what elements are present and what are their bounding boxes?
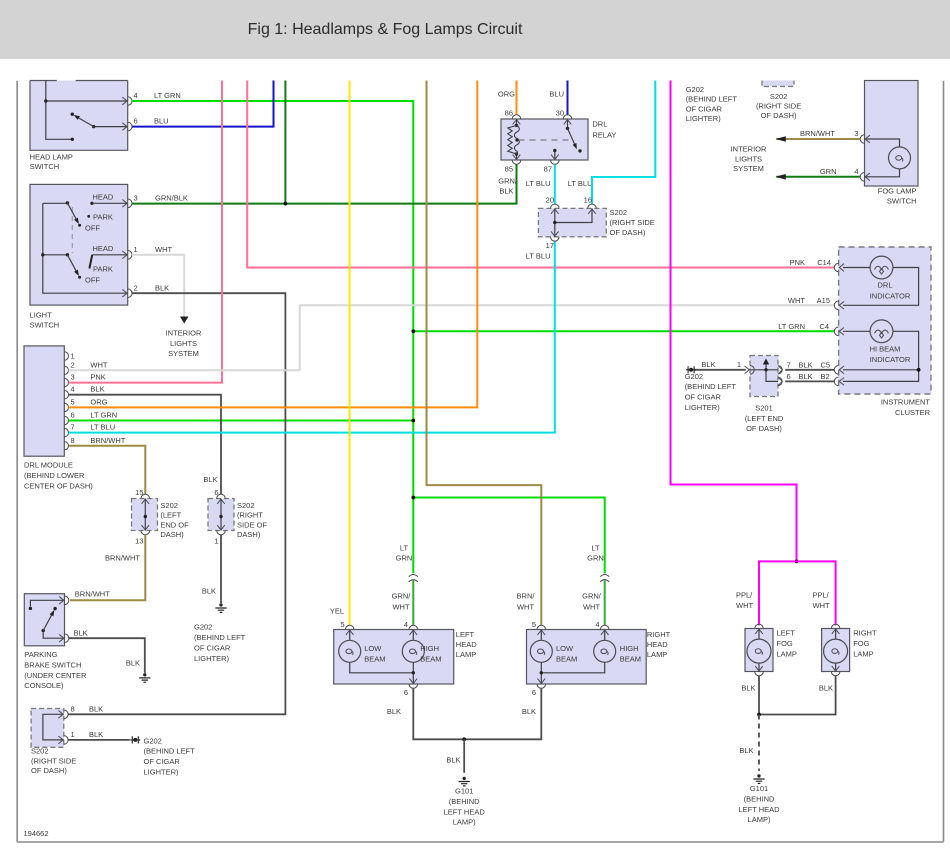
svg-text:S202: S202 [160,501,178,510]
head lamp switch box [30,81,128,151]
svg-text:PARK: PARK [93,212,113,221]
light switch mechanical link (dashed) [71,207,73,253]
wire BRN/WHT: DRL module pin 8 down to S202 pin 15 [69,446,146,495]
svg-text:OF DASH): OF DASH) [31,766,67,775]
wire BLK: DRL module pin 4 down to S202 (right side) [69,395,222,495]
svg-text:6: 6 [404,688,408,697]
svg-text:BLK: BLK [522,707,536,716]
svg-text:(BEHIND LOWER: (BEHIND LOWER [24,471,85,480]
svg-text:PPL/: PPL/ [813,591,830,600]
svg-text:BRN/: BRN/ [517,592,536,601]
DRL module pin 1 [64,352,68,360]
svg-text:(BEHIND: (BEHIND [744,794,775,803]
svg-text:B2: B2 [821,372,830,381]
svg-text:LT BLU: LT BLU [526,179,551,188]
svg-text:LOW: LOW [364,644,382,653]
right fog lamp pin bottom [831,666,840,676]
svg-text:1: 1 [737,360,741,369]
svg-text:2: 2 [71,360,75,369]
svg-text:HIGH: HIGH [420,644,439,653]
head lamp switch internal bus [44,81,128,142]
left head lamp high beam bulb [402,640,424,662]
wire BLK: G202 splice to S201 pin 1 [695,369,746,371]
inline connector on left GRN/WHT feed [409,575,418,582]
svg-text:ORG: ORG [498,89,515,98]
svg-text:7: 7 [787,360,791,369]
svg-text:LT: LT [591,544,600,553]
svg-text:FOG: FOG [853,639,869,648]
svg-text:PPL/: PPL/ [736,591,753,600]
svg-text:(RIGHT SIDE: (RIGHT SIDE [756,102,801,111]
svg-text:INTERIOR: INTERIOR [166,329,202,338]
svg-text:WHT: WHT [813,601,830,610]
svg-text:BLK: BLK [126,659,140,668]
fog lamp switch pin 3 [860,135,870,144]
svg-text:(BEHIND LEFT: (BEHIND LEFT [194,633,246,642]
wire BRN/WHT: fog switch pin 3 to interior lights system [776,138,860,140]
S201 pin 1 [745,366,755,375]
svg-text:BLK: BLK [799,372,813,381]
S202 relay-area box [538,208,606,236]
S202 bottom box pin 8 [58,710,68,719]
svg-text:DASH): DASH) [237,530,261,539]
svg-text:RELAY: RELAY [592,130,616,139]
wire BLK: right fog lamp to junction [759,676,836,715]
svg-text:LIGHT: LIGHT [30,311,53,320]
svg-text:WHT: WHT [517,602,534,611]
fog lamp switch pin 4 [860,173,870,182]
left head lamp pin 6 [409,679,418,689]
wire YEL: top feed down to left head lamp pin 5 [349,81,351,626]
parking brake switch pin BRN/WHT [59,596,69,605]
wire BLK: S201 pin 7 to cluster C5 [785,369,834,371]
svg-text:4: 4 [134,91,138,100]
svg-text:BLK: BLK [74,628,88,637]
wire BLK: parking brake switch to ground [69,638,145,673]
DRL relay coil [508,119,520,160]
svg-text:5: 5 [71,397,75,406]
left fog lamp internal wires [758,629,760,672]
svg-text:END OF: END OF [160,520,189,529]
svg-text:(BEHIND LEFT: (BEHIND LEFT [686,95,738,104]
fog lamp switch box [865,81,919,187]
svg-text:4: 4 [71,385,75,394]
splice G202 (behind left of cigar lighter) [130,736,140,743]
parking brake switch internal contacts [29,600,65,638]
wire BLU: relay pin 30 stub [567,81,569,116]
svg-text:YEL: YEL [330,607,344,616]
svg-text:CONSOLE): CONSOLE) [24,681,64,690]
svg-text:OF DASH): OF DASH) [610,228,646,237]
svg-text:LOW: LOW [556,644,574,653]
left head lamp low beam bulb [339,640,361,662]
right fog lamp bulb [824,639,848,663]
svg-text:FOG LAMP: FOG LAMP [878,187,917,196]
DRL module pin 3 [64,378,68,386]
wire LT BLU: relay pin 87 to S202 pin 20 [554,165,556,205]
svg-text:DRL: DRL [877,281,892,290]
svg-text:6: 6 [787,372,791,381]
light switch pin 2 [122,289,132,298]
S202 relay-area internal wires [553,208,592,236]
svg-text:S201: S201 [755,403,773,412]
wire PNK: top feed down to instrument cluster C14 [247,81,834,268]
left head lamp pin 5 [345,625,354,635]
svg-text:HEAD LAMP: HEAD LAMP [30,152,73,161]
S202 (left end of dash) box [132,499,158,531]
svg-text:6: 6 [71,411,75,420]
svg-text:WHT: WHT [392,602,409,611]
svg-text:7: 7 [71,423,75,432]
wire BLK: junction to ground G101 [463,739,465,773]
DRL relay pin 87 stub [553,149,556,160]
right fog lamp internal wires [835,629,837,672]
head lamp switch movable contact [71,113,128,129]
wire BLK: S202 right box pin 1 to ground G202 [220,535,222,603]
S201 box [750,356,778,397]
svg-text:GRN/: GRN/ [582,592,602,601]
svg-text:INTERIOR: INTERIOR [731,145,767,154]
svg-text:(RIGHT SIDE: (RIGHT SIDE [31,756,76,765]
svg-text:HIGH: HIGH [620,644,639,653]
svg-text:(BEHIND: (BEHIND [449,797,480,806]
light switch wafer 1 PARK / OFF labels [87,215,90,218]
svg-text:SYSTEM: SYSTEM [733,164,764,173]
svg-text:SWITCH: SWITCH [30,320,60,329]
svg-text:OFF: OFF [85,275,100,284]
svg-text:LAMP: LAMP [777,650,797,659]
svg-text:87: 87 [544,165,552,174]
svg-text:LIGHTER): LIGHTER) [686,114,722,123]
DRL relay pin 86 [512,115,521,125]
wire BLK: left head lamp pin 6 to ground join [413,688,464,739]
svg-text:BLK: BLK [90,385,104,394]
light switch box [30,184,128,305]
wire BLK: left fog lamp to junction [758,676,760,715]
wire GRN: fog switch pin 4 to interior lights system [776,176,860,178]
light switch wafer 2 HEAD-PARK contact bar [85,244,128,285]
svg-text:LAMP): LAMP) [748,815,771,824]
svg-text:RIGHT: RIGHT [647,630,671,639]
cluster pin A15 [834,301,844,310]
svg-text:BLU: BLU [549,89,564,98]
wire LT GRN from DRL module pin 6 [69,420,414,422]
left head lamp box [334,630,454,685]
svg-text:LAMP): LAMP) [453,818,476,827]
svg-text:CLUSTER: CLUSTER [895,408,931,417]
svg-text:HEAD: HEAD [93,244,114,253]
svg-text:4: 4 [595,620,599,629]
svg-text:PNK: PNK [90,373,105,382]
svg-text:1: 1 [134,245,138,254]
svg-text:INDICATOR: INDICATOR [870,291,911,300]
svg-text:GRN/: GRN/ [498,177,518,186]
DRL relay pin 30 [563,115,572,125]
svg-text:GRN: GRN [587,554,604,563]
svg-text:BRN/WHT: BRN/WHT [800,129,835,138]
svg-text:HEAD: HEAD [456,640,477,649]
svg-text:4: 4 [404,620,408,629]
left head lamp internal wires [350,630,415,685]
svg-text:8: 8 [71,704,75,713]
svg-text:(BEHIND LEFT: (BEHIND LEFT [144,747,196,756]
wire WHT: light switch pin 1 to interior lights system arrow [132,255,184,317]
svg-text:RIGHT: RIGHT [853,629,877,638]
svg-text:G101: G101 [455,787,473,796]
svg-text:5: 5 [340,620,344,629]
light switch internal bus [41,203,128,293]
instrument cluster box [839,247,931,394]
svg-text:G101: G101 [750,784,768,793]
DRL module pin 6 [64,416,68,424]
svg-text:G202: G202 [685,372,703,381]
S202 bottom box internal link [43,714,64,740]
wire BLU: head lamp switch pin 6 to top [132,81,274,127]
svg-text:LT BLU: LT BLU [90,423,115,432]
svg-text:LEFT HEAD: LEFT HEAD [738,805,780,814]
svg-text:LEFT HEAD: LEFT HEAD [444,807,486,816]
svg-text:86: 86 [505,108,513,117]
svg-text:1: 1 [71,730,75,739]
svg-text:SIDE OF: SIDE OF [237,520,267,529]
left fog lamp bulb [747,639,771,663]
svg-text:LT BLU: LT BLU [568,179,593,188]
DRL module pin 8 [64,442,68,450]
svg-text:OF CIGAR: OF CIGAR [194,644,231,653]
svg-text:SWITCH: SWITCH [30,162,60,171]
frame border left [16,81,18,842]
svg-text:PARKING: PARKING [24,650,57,659]
svg-text:3: 3 [71,373,75,382]
svg-text:3: 3 [854,129,858,138]
svg-text:G202: G202 [686,85,704,94]
svg-text:194662: 194662 [24,829,49,838]
right fog lamp pin top [831,624,840,634]
svg-text:(LEFT: (LEFT [160,511,181,520]
inline connector on right GRN/WHT feed [600,575,609,582]
svg-text:LAMP: LAMP [456,650,476,659]
svg-text:BEAM: BEAM [556,655,577,664]
DRL relay pin 85 [512,155,521,165]
svg-text:BLK: BLK [741,684,755,693]
HI BEAM indicator bulb [870,320,893,343]
S202 right box pin 1 [217,525,226,535]
ground G101 (behind left head lamp, fog) [753,774,764,783]
svg-text:A15: A15 [817,296,830,305]
svg-text:S202: S202 [770,92,788,101]
svg-text:OFF: OFF [85,223,100,232]
ground (parking brake switch) [139,673,150,682]
DRL indicator bulb [870,256,893,279]
svg-text:GRN/BLK: GRN/BLK [155,193,188,202]
svg-text:LAMP: LAMP [647,650,667,659]
DRL relay switch [566,119,582,153]
frame border right [943,81,945,842]
svg-text:OF CIGAR: OF CIGAR [686,104,723,113]
svg-text:LIGHTER): LIGHTER) [194,654,230,663]
light switch pin 3 [122,199,132,208]
cluster pin C4 [834,327,844,336]
wire BLK (dashed): fog junction to ground G101 [758,715,760,772]
wire BLK: S201 pin 6 to cluster B2 [785,380,834,382]
frame border bottom [17,841,943,843]
svg-text:GRN/: GRN/ [392,592,412,601]
svg-text:INDICATOR: INDICATOR [870,355,911,364]
svg-text:BLU: BLU [154,117,169,126]
right head lamp pin 5 [537,625,546,635]
svg-text:LT GRN: LT GRN [778,322,805,331]
svg-text:LIGHTS: LIGHTS [170,339,197,348]
wire WHT: DRL module pin 2 to instrument cluster A15 [69,305,835,370]
svg-text:BRN/WHT: BRN/WHT [105,554,140,563]
S202 (right side of dash) partial box, top [762,81,794,87]
ground G202 (behind left of cigar lighter) [215,603,226,612]
wire PPL/WHT: top feed down to fog lamp split [671,81,797,562]
svg-text:HEAD: HEAD [93,192,114,201]
DRL relay box [501,119,588,160]
svg-text:(BEHIND LEFT: (BEHIND LEFT [685,382,737,391]
S202 (right side of dash) bottom box [31,709,64,748]
S202 (right side of dash) box [208,499,234,531]
svg-text:HEAD: HEAD [647,640,668,649]
node LT GRN junction at DRL pin 6 tap [411,419,415,423]
svg-text:BLK: BLK [89,704,103,713]
svg-text:WHT: WHT [736,601,753,610]
svg-text:DRL MODULE: DRL MODULE [24,461,73,470]
right head lamp internal wires [540,630,605,685]
svg-text:2: 2 [134,283,138,292]
node LT GRN junction at C4 tap [411,329,415,333]
S202 right box pin 6 [217,494,226,504]
wire LT BLU: DRL module pin 7 to S202 pin 17 [69,241,555,432]
S202 left box internal wire [144,499,147,531]
svg-text:PARK: PARK [93,264,113,273]
node PPL/WHT fog split junction [795,560,799,564]
S201 pin 6 [778,377,782,385]
svg-text:DASH): DASH) [160,530,184,539]
HI BEAM indicator circuit wires [843,331,919,381]
svg-text:(RIGHT: (RIGHT [237,511,263,520]
svg-text:HI BEAM: HI BEAM [870,344,901,353]
svg-text:LEFT: LEFT [777,629,796,638]
DRL relay pin 87 [551,155,560,165]
svg-text:20: 20 [546,195,554,204]
svg-text:(UNDER CENTER: (UNDER CENTER [24,671,87,680]
svg-text:CENTER OF DASH): CENTER OF DASH) [24,482,93,491]
wire PNK: top feed down to DRL module pin 3 [69,81,223,383]
node LT GRN junction at head lamp split [411,496,415,500]
svg-text:LT GRN: LT GRN [90,411,117,420]
svg-text:INSTRUMENT: INSTRUMENT [881,398,931,407]
left fog lamp box [745,629,773,672]
DRL relay dashed actuating link [519,139,572,141]
svg-text:BLK: BLK [202,587,216,596]
S202 relay-area pin 20 [551,204,560,214]
wire GRN/BLK: light switch pin 3 to DRL relay pin 85 [132,165,517,204]
left fog lamp pin bottom [755,666,764,676]
svg-text:BLK: BLK [155,283,169,292]
right head lamp box [527,630,647,685]
fog lamp switch internal lamp circuit [865,139,900,177]
svg-text:G202: G202 [194,623,212,632]
head lamp switch pin 4 [122,97,132,106]
node BLK fog lamp ground junction [757,713,761,717]
svg-text:BLK: BLK [387,707,401,716]
svg-text:ORG: ORG [90,397,107,406]
svg-text:G202: G202 [144,736,162,745]
svg-text:5: 5 [532,620,536,629]
fog lamp switch bulb [889,147,911,169]
svg-text:BEAM: BEAM [620,655,641,664]
svg-text:SYSTEM: SYSTEM [168,349,199,358]
wire BLK: S202 pin 1 to G202 splice [68,739,130,741]
svg-text:OF CIGAR: OF CIGAR [144,757,181,766]
S202 left box pin 13 [141,525,150,535]
parking brake switch box [24,594,64,646]
node: cluster ground junction [917,368,921,372]
splice G202 (behind left of cigar lighter) [686,366,696,373]
svg-text:8: 8 [71,436,75,445]
parking brake switch pin BLK [59,634,69,643]
right head lamp pin 4 [600,625,609,635]
svg-text:13: 13 [135,537,143,546]
cluster pin C14 [834,263,844,272]
svg-text:(LEFT END: (LEFT END [745,414,784,423]
wire GRN/WHT: to right head lamp pin 4 [604,581,606,626]
svg-text:GRN: GRN [820,167,837,176]
svg-text:6: 6 [134,117,138,126]
svg-text:BLK: BLK [499,187,513,196]
svg-text:BEAM: BEAM [364,655,385,664]
interior lights system arrow (light switch) [180,317,189,324]
svg-text:DRL: DRL [592,119,607,128]
wire ORG: relay pin 86 stub [516,81,518,116]
svg-text:BLK: BLK [799,360,813,369]
wire BLK: light switch pin 2 down to S202 pin 8 [68,293,285,714]
svg-text:85: 85 [505,165,513,174]
head lamp switch pin 6 [122,122,132,131]
S202 bottom box pin 1 [58,736,68,745]
svg-text:C5: C5 [821,360,831,369]
svg-text:BLK: BLK [203,475,217,484]
wire ORG: DRL module pin 5 up to top [69,81,478,408]
left head lamp pin 4 [409,625,418,635]
svg-text:FOG: FOG [777,639,793,648]
svg-text:(RIGHT SIDE: (RIGHT SIDE [610,218,655,227]
svg-text:WHT: WHT [788,296,805,305]
S202 relay-area pin 16 [588,204,597,214]
svg-text:3: 3 [134,193,138,202]
svg-text:LIGHTS: LIGHTS [735,154,762,163]
cluster pin C5 [834,366,844,375]
wire GRN/BLK branch up to top [284,81,286,204]
svg-text:S202: S202 [31,747,49,756]
header bar [0,0,950,59]
svg-text:S202: S202 [237,501,255,510]
light switch wafer 1 HEAD contact [90,192,127,205]
S201 pin 7 [778,366,782,374]
svg-text:C4: C4 [819,322,829,331]
node GRN/BLK junction [284,202,288,206]
wire LT GRN branch to instrument cluster C4 [413,330,834,332]
svg-text:BLK: BLK [819,684,833,693]
wire LT BLU: S202 pin 16 riser to top [592,81,655,205]
wire BRN/WHT: S202 left box pin 13 to parking brake switch [70,535,145,601]
DRL module pin 7 [64,428,68,436]
S202 right box internal wire [219,499,222,531]
right fog lamp box [822,629,850,672]
svg-text:BEAM: BEAM [420,655,441,664]
